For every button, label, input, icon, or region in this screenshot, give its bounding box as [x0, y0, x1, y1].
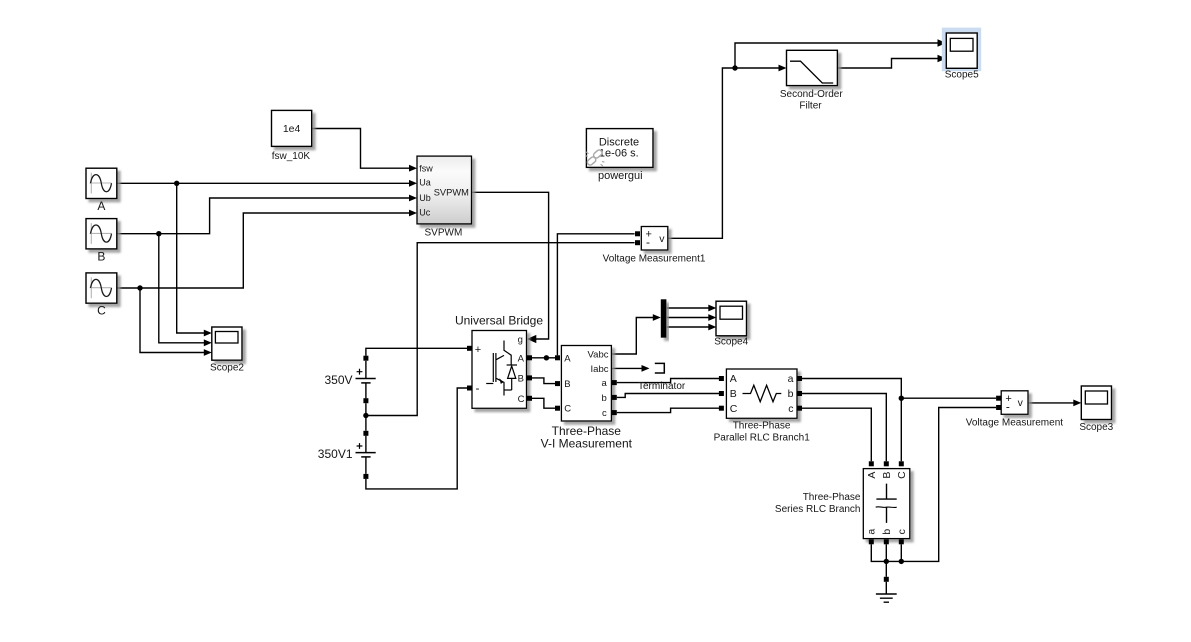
svg-text:-: -: [646, 235, 650, 249]
arrowhead into Second-Order Filter: [779, 65, 787, 72]
wire Second-Order Filter output to Scope5 input 2: [837, 59, 939, 69]
demux block: [661, 299, 667, 337]
svg-text:350V1: 350V1: [318, 447, 353, 461]
svg-text:a: a: [602, 378, 608, 389]
wire battery midpoint to Voltage Measurement1 minus: [366, 243, 635, 431]
arrowhead into Universal Bridge g (pointing left): [527, 335, 537, 343]
arrowhead into Scope2 input 2: [204, 339, 212, 346]
svg-text:Three-Phase: Three-Phase: [733, 420, 791, 431]
svg-text:1e4: 1e4: [283, 123, 301, 135]
port square bridge C: [527, 396, 532, 401]
wire Sine B branch down to Scope2 input 2: [159, 234, 205, 343]
arrowhead into Scope2 input 1: [204, 330, 212, 337]
wire Voltage Measurement output to Scope3: [1028, 402, 1074, 404]
wire Sine A branch down to Scope2 input 1: [177, 183, 205, 333]
svg-text:a: a: [788, 373, 794, 385]
wire Sine A to SVPWM Ua: [117, 182, 410, 184]
capacitor icon (rotated): [886, 484, 888, 523]
svg-text:C: C: [97, 304, 106, 318]
svg-text:V-I Measurement: V-I Measurement: [541, 437, 633, 451]
svg-text:Voltage Measurement: Voltage Measurement: [966, 418, 1064, 429]
svg-text:c: c: [602, 408, 607, 419]
svg-text:Filter: Filter: [799, 101, 822, 112]
svg-text:fsw: fsw: [419, 163, 433, 173]
svg-text:A: A: [97, 199, 105, 213]
ground symbol: [876, 577, 897, 602]
terminator block: [638, 363, 686, 392]
arrowhead into Demux: [653, 314, 661, 321]
svg-text:Parallel RLC Branch1: Parallel RLC Branch1: [714, 432, 811, 443]
svg-text:+: +: [475, 344, 481, 356]
svg-text:Series RLC Branch: Series RLC Branch: [775, 504, 861, 515]
junction dot on Sine B wire: [156, 231, 161, 236]
junction dot on Sine A wire: [174, 181, 179, 186]
wire Sine C branch down to Scope2 input 3: [140, 288, 205, 353]
svg-text:b: b: [881, 529, 893, 535]
svg-text:Ub: Ub: [419, 193, 431, 203]
arrowhead into Scope4 input 1: [708, 305, 716, 312]
svg-text:powergui: powergui: [598, 170, 643, 182]
svg-text:SVPWM: SVPWM: [434, 187, 469, 197]
svg-text:g: g: [518, 334, 523, 345]
wire battery 350V plus terminal to Universal Bridge plus: [366, 348, 467, 355]
selection highlight around Scope5: [942, 28, 981, 72]
svg-text:b: b: [602, 393, 607, 404]
wire Sine B to SVPWM Ub: [117, 198, 410, 234]
three-phase series RLC branch block (rotated): [775, 461, 910, 544]
wire Demux output 3 to Scope4 input 3: [667, 326, 709, 328]
svg-text:C: C: [896, 471, 908, 479]
wire Parallel RLC a down to Series RLC C and Voltage Measurement plus: [802, 379, 996, 462]
junction dot on Sine C wire: [137, 285, 142, 290]
scope Scope4: [714, 301, 748, 348]
port square bridge A: [527, 355, 532, 360]
port square bridge minus: [467, 386, 472, 391]
svg-text:b: b: [788, 388, 794, 400]
wire Parallel RLC b down to Series RLC B: [802, 394, 886, 462]
arrowhead into SVPWM fsw: [409, 165, 417, 172]
wire Universal Bridge C to V-I Measurement C: [532, 398, 555, 408]
svg-text:v: v: [659, 233, 665, 245]
wire fsw_10K constant to SVPWM fsw: [312, 129, 410, 169]
constant fsw_10K value 1e4: [272, 110, 312, 161]
svg-text:C: C: [564, 404, 571, 415]
wire Universal Bridge A to V-I Measurement A: [532, 357, 555, 359]
subsystem SVPWM: [417, 156, 472, 238]
svg-text:Scope3: Scope3: [1079, 422, 1113, 433]
junction dot at Second-Order Filter input branch: [732, 65, 737, 70]
wire Iabc output to Terminator: [611, 367, 642, 369]
scope Scope2: [210, 327, 244, 373]
wire Series RLC bottom bus to Voltage Measurement minus: [871, 408, 996, 562]
arrowhead into Scope5 input 2: [938, 55, 947, 63]
wire Universal Bridge B to V-I Measurement B: [532, 378, 555, 384]
arrowhead into Scope4 input 3: [708, 324, 716, 331]
voltage measurement block Voltage Measurement: [966, 391, 1064, 429]
resistor zigzag icon: [743, 385, 782, 401]
DC voltage source 350V1: [318, 431, 376, 479]
svg-text:-: -: [1006, 400, 1010, 414]
svg-text:1e-06 s.: 1e-06 s.: [599, 147, 639, 159]
svg-text:Second-Order: Second-Order: [780, 89, 843, 100]
svg-text:A: A: [518, 354, 525, 365]
svg-text:B: B: [881, 472, 893, 479]
svg-text:C: C: [518, 394, 525, 405]
svg-text:-: -: [476, 381, 480, 395]
wire Demux output 2 to Scope4 input 2: [667, 317, 709, 319]
svg-text:A: A: [564, 353, 571, 364]
svg-text:Scope2: Scope2: [210, 362, 244, 373]
scope Scope5: [945, 33, 979, 81]
svg-text:A: A: [866, 472, 878, 479]
arrowhead into Scope3: [1073, 400, 1081, 407]
svg-text:a: a: [866, 529, 878, 535]
wire V-I a to Parallel RLC A: [617, 379, 722, 383]
scope Scope3: [1079, 386, 1113, 433]
svg-text:B: B: [97, 249, 105, 263]
bottom port squares a b c: [869, 539, 874, 544]
arrowhead into SVPWM Uc: [409, 210, 417, 217]
transfer function block Second-Order Filter: [780, 50, 843, 111]
arrowhead into Scope2 input 3: [204, 349, 212, 356]
wire Series RLC c to bottom bus: [900, 544, 902, 561]
sine wave source A: [86, 168, 117, 213]
svg-text:Iabc: Iabc: [591, 364, 609, 375]
wire Vabc output to Demux input: [611, 318, 653, 355]
junction dot on Parallel RLC a vertical: [899, 396, 904, 401]
arrowhead into Terminator: [642, 365, 650, 372]
svg-text:fsw_10K: fsw_10K: [272, 151, 311, 162]
svg-text:Three-Phase: Three-Phase: [803, 492, 861, 503]
top port squares A B C: [869, 461, 874, 466]
junction dot battery midpoint: [363, 413, 368, 418]
wire Series RLC b to ground: [885, 544, 887, 577]
svg-text:Vabc: Vabc: [588, 350, 609, 361]
port square bridge plus: [467, 346, 472, 351]
wire branch from junction up to Scope5 input 1: [735, 43, 939, 68]
sine wave source B: [86, 219, 117, 264]
arrowhead into Scope4 input 2: [708, 314, 716, 321]
svg-text:Scope4: Scope4: [714, 337, 748, 348]
svg-text:B: B: [518, 374, 524, 385]
wire SVPWM output to Universal Bridge g input: [472, 192, 549, 339]
svg-text:v: v: [1018, 397, 1024, 409]
wire V-I b to Parallel RLC B: [617, 394, 722, 398]
wire Sine C to SVPWM Uc: [117, 213, 410, 288]
junction dot bottom bus c: [899, 559, 904, 564]
wire V-I c to Parallel RLC C: [617, 408, 722, 412]
svg-text:Terminator: Terminator: [638, 381, 686, 392]
svg-text:B: B: [564, 379, 570, 390]
three-phase V-I measurement block: [541, 346, 633, 451]
wire Parallel RLC c down to Series RLC A: [802, 408, 871, 461]
voltage measurement block Voltage Measurement1: [603, 227, 706, 265]
svg-text:C: C: [730, 403, 738, 415]
junction dot bottom bus b: [884, 559, 889, 564]
wire battery 350V1 bottom to Universal Bridge minus: [366, 388, 467, 489]
arrowhead into SVPWM Ub: [409, 195, 417, 202]
svg-text:A: A: [730, 373, 737, 385]
junction dot on bridge A wire: [544, 355, 549, 360]
svg-text:SVPWM: SVPWM: [425, 227, 463, 238]
WIRES_START: [117, 43, 1075, 577]
arrowhead into SVPWM Ua: [409, 180, 417, 187]
svg-text:350V: 350V: [324, 373, 352, 387]
IGBT and diode icon: [486, 341, 517, 396]
svg-text:c: c: [788, 403, 793, 415]
svg-text:Uc: Uc: [419, 208, 430, 218]
svg-text:Scope5: Scope5: [945, 70, 979, 81]
wire Demux output 1 to Scope4 input 1: [667, 307, 709, 309]
universal bridge block: [455, 313, 543, 408]
DC voltage source 350V: [324, 356, 375, 404]
port square bridge B: [527, 375, 532, 380]
svg-text:c: c: [896, 529, 908, 534]
svg-text:Universal Bridge: Universal Bridge: [455, 313, 543, 327]
sine wave source C: [86, 273, 117, 318]
svg-text:B: B: [730, 388, 737, 400]
svg-text:Voltage Measurement1: Voltage Measurement1: [603, 254, 706, 265]
powergui block: [585, 129, 653, 182]
svg-text:Ua: Ua: [419, 178, 431, 188]
wire bridge A node up to Voltage Measurement1 plus: [557, 234, 634, 356]
three-phase parallel RLC branch1 block: [714, 369, 811, 443]
arrowhead into Scope5 input 1: [938, 39, 947, 47]
wire Voltage Measurement1 output up to Second-Order Filter input: [668, 68, 780, 238]
